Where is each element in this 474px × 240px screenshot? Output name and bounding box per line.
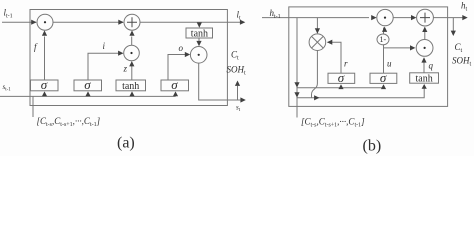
arrowhead: into plus a: [118, 20, 123, 25]
wire: tanh down to output multiply: [198, 38, 200, 45]
sigma box r (reset gate): [328, 73, 355, 83]
wire: stem into sigma 3: [175, 95, 177, 96]
svg-text:1-: 1-: [380, 35, 387, 44]
arrowhead: z into multiply: [129, 61, 134, 66]
svg-text:σ: σ: [84, 77, 91, 92]
arrowhead: into h multiply left: [371, 15, 376, 20]
svg-text:r: r: [344, 59, 348, 69]
wire: stem into sigma u: [383, 85, 385, 88]
arrowhead: r into reset multiply: [327, 40, 332, 45]
arrowhead: into sigma4: [173, 91, 178, 96]
dot of multiply iz: [130, 52, 132, 54]
wire: h line between multiply and plus: [393, 17, 415, 19]
wire: tanh q up into candidate multiply: [423, 58, 425, 73]
wire: stem into sigma 2: [87, 95, 89, 96]
arrowhead: cell-state output tip: [240, 20, 245, 25]
dot of multiply a: [44, 21, 46, 23]
candidate multiply node: [416, 40, 433, 57]
wire: input gate i elbow to multiply node: [88, 53, 121, 80]
arrowhead: u into candidate multiply: [410, 45, 415, 50]
arrowhead: C_t SOH_t drop tip: [451, 31, 456, 36]
wire: SOH_t branch up: [237, 86, 239, 100]
arrowhead: into sigma2: [85, 91, 90, 96]
wire: stem into tanh: [131, 95, 133, 96]
wire: s input line along bottom: [0, 95, 176, 97]
arrowhead: h_t output tip: [462, 15, 467, 20]
sigma box 1 (forget gate): [31, 80, 59, 91]
arrowhead: u*q into plus: [422, 27, 427, 32]
wire: update gate u up through junction to 1- ellipse: [383, 45, 385, 73]
arrowhead: onto line A: [294, 82, 299, 87]
svg-text:σ: σ: [41, 77, 48, 92]
arrowhead: into tanh top right: [197, 22, 202, 27]
arrowhead: into sigma1: [42, 91, 47, 96]
svg-text:tanh: tanh: [122, 81, 139, 92]
arrowhead: into reset multiply top: [315, 28, 320, 33]
arrowhead: into tanh b: [422, 84, 427, 89]
wire: reset gate r elbow into circle-times: [328, 42, 342, 73]
wire: cell-state line exiting right: [140, 21, 243, 23]
plus sign b: [420, 13, 430, 23]
svg-text:(b): (b): [363, 138, 382, 155]
wire: hidden state down and right to outputs: [199, 63, 244, 100]
wire: stem into sigma 1: [44, 95, 46, 96]
plus sign a: [127, 17, 137, 27]
h multiply node on h line: [377, 9, 393, 25]
arrowhead: i into multiply: [118, 51, 123, 56]
wire: h line exiting right: [433, 17, 466, 19]
plus node (h_t sum): [417, 9, 434, 26]
svg-text:(a): (a): [117, 135, 135, 152]
wire: cell state down into tanh: [198, 22, 200, 26]
arrowhead: o into output multiply: [185, 52, 190, 57]
arrowhead: into sigma u: [381, 84, 386, 89]
dot of h multiply: [384, 17, 386, 19]
wire: cell-state line entering left: [2, 21, 36, 23]
wire: u branch right into candidate multiply: [384, 47, 415, 49]
output multiply node (o * tanh): [190, 47, 207, 64]
one-minus ellipse: [377, 34, 389, 45]
arrowhead: 1-u into h multiply: [382, 27, 387, 32]
arrowhead: merge onto line B rightward: [314, 95, 319, 100]
arrowhead: into multiply a: [31, 20, 36, 25]
wire: input sequence connector: [32, 96, 34, 117]
svg-text:q: q: [429, 61, 434, 71]
arrowhead: into sigma r: [338, 84, 343, 89]
wire: stem into sigma r: [340, 85, 342, 88]
wire: output gate o elbow to output multiply: [168, 55, 187, 81]
arrowhead: s_t output tip: [240, 97, 245, 102]
wire: forget gate f up to multiply: [44, 37, 46, 81]
svg-text:u: u: [387, 59, 392, 69]
wire: concat drop from h line: [296, 18, 298, 118]
arrowhead: tanh into output multiply: [196, 41, 201, 46]
svg-text:z: z: [123, 64, 128, 74]
wire: h line entering left: [262, 17, 369, 19]
multiply node (forget gate product): [37, 14, 53, 30]
wire: i*z product up to plus node: [131, 37, 133, 46]
svg-text:tanh: tanh: [416, 74, 433, 85]
wire: gate input line A: [297, 87, 384, 89]
tanh box (cell output squash): [186, 28, 213, 38]
arrowhead: f into multiply: [42, 30, 47, 35]
wire: candidate input line B with rise into tanh: [297, 85, 424, 98]
arrowhead: product into plus: [129, 30, 134, 35]
tanh box (candidate): [116, 80, 146, 91]
svg-text:tanh: tanh: [191, 29, 208, 40]
arrowhead: into plus b: [411, 15, 416, 20]
svg-text:o: o: [179, 43, 184, 53]
arrowhead: into tanh3: [129, 91, 134, 96]
wire: drop into reset multiply: [316, 18, 318, 33]
reset multiply node (circle-times): [309, 34, 326, 51]
wire: r*h down with S-curve onto line B: [312, 51, 318, 98]
sigma box 2 (input gate): [74, 80, 102, 91]
arrowhead: q into candidate multiply: [421, 57, 426, 62]
wire: C_t/SOH_t drop outside box: [452, 18, 454, 34]
sigma box u (update gate): [370, 73, 397, 83]
outer box of LSTM cell (a): [30, 10, 227, 106]
arrowhead: onto line B: [294, 92, 299, 97]
tanh box (candidate): [410, 73, 439, 83]
wire: 1-u up into h multiply: [383, 28, 385, 35]
outer box of GRU cell (b): [289, 7, 448, 107]
dot of candidate multiply: [424, 47, 426, 49]
plus node (cell-state sum): [124, 14, 140, 30]
svg-text:σ: σ: [171, 77, 178, 92]
arrowhead: SOH branch tip: [235, 81, 240, 86]
multiply node for i*z: [124, 45, 140, 61]
svg-text:σ: σ: [338, 70, 345, 85]
wire: cell-state line between multiply and plus: [53, 21, 123, 23]
wire: u*q up into plus: [424, 28, 426, 40]
dot of output multiply: [198, 54, 200, 56]
svg-text:σ: σ: [380, 70, 387, 85]
wire: candidate z up to multiply node: [131, 66, 133, 80]
sigma box 3 (output gate): [161, 80, 189, 91]
